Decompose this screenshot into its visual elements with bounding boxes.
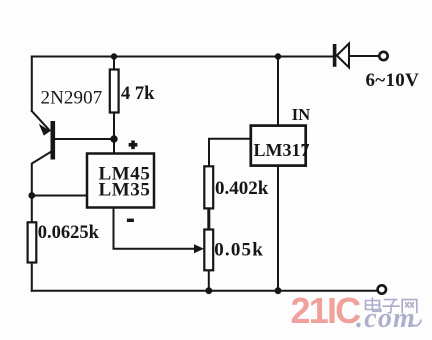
svg-text:IN: IN <box>292 105 310 124</box>
wire emitter lead of Q1 <box>32 111 50 130</box>
svg-text:4 7k: 4 7k <box>121 84 155 104</box>
svg-text:LM317: LM317 <box>254 140 310 160</box>
svg-text:2N2907: 2N2907 <box>41 87 103 108</box>
wire R4 bottom to ground rail <box>208 270 210 290</box>
wire between R3 and R4 <box>207 208 210 229</box>
wire resistor R1 bottom to node A and LM35 + pin <box>113 113 115 154</box>
op-amp U2 LM317 box <box>251 126 306 166</box>
diode D1 triangle <box>337 44 349 68</box>
node junction dot top rail LM317 <box>275 53 281 59</box>
wire diode cathode to output terminal <box>349 55 379 57</box>
node junction dot LM317 ADJ bottom <box>275 287 282 294</box>
node junction dot collector/LM35 <box>28 192 35 199</box>
svg-text:21IC: 21IC <box>291 290 362 331</box>
op-amp U1 LM45/LM35 box <box>87 154 154 208</box>
svg-text:LM35: LM35 <box>99 180 151 201</box>
wire left vertical from top rail <box>31 57 33 112</box>
node output terminal bottom <box>378 285 386 293</box>
watermark chinese 电子网 <box>366 298 417 314</box>
svg-text:0.05k: 0.05k <box>214 240 264 261</box>
wire bottom rail <box>32 290 378 292</box>
arrow wiper into R4 <box>194 244 204 253</box>
node junction dot top rail R1 <box>111 53 117 59</box>
resistor R1 4.7k body <box>110 70 119 113</box>
svg-text:6~10V: 6~10V <box>366 70 420 91</box>
node junction dot divider bottom <box>205 287 212 294</box>
wire LM35 - pin down and right to R4 wiper <box>114 208 198 249</box>
wire LM317 OUT pin to divider top <box>209 139 251 167</box>
minus sign at LM35 - pin <box>127 219 134 222</box>
svg-text:0.0625k: 0.0625k <box>38 223 100 243</box>
resistor R3 0.402k body <box>204 166 213 208</box>
svg-text:0.402k: 0.402k <box>215 178 269 199</box>
transistor Q1 emitter arrowhead <box>39 124 51 136</box>
plus sign at LM35 + pin <box>129 141 138 150</box>
resistor R2 0.0625k body <box>28 222 37 262</box>
transistor Q1 2N2907 base bar <box>51 121 56 160</box>
wire collector lead of Q1 down-left <box>32 151 53 224</box>
wire collector node to LM35 left pin <box>32 195 87 197</box>
diode D1 cathode bar <box>333 44 337 67</box>
wire LM317 ADJ pin to ground rail <box>277 166 279 291</box>
wire top rail to resistor R1 top <box>113 57 115 70</box>
resistor R4 0.05k body <box>204 230 213 271</box>
网 <box>402 300 417 314</box>
wire top rail to LM317 IN pin <box>277 57 279 126</box>
watermark .com swash tail <box>412 320 421 326</box>
子 <box>383 300 400 313</box>
wire top rail <box>32 56 333 58</box>
wire below resistor R2 0.0625k to ground rail <box>31 263 33 291</box>
node output terminal top <box>379 52 387 60</box>
wire base of Q1 to node A <box>55 138 114 140</box>
node junction dot base/R1 <box>110 135 117 142</box>
电 <box>366 298 381 312</box>
